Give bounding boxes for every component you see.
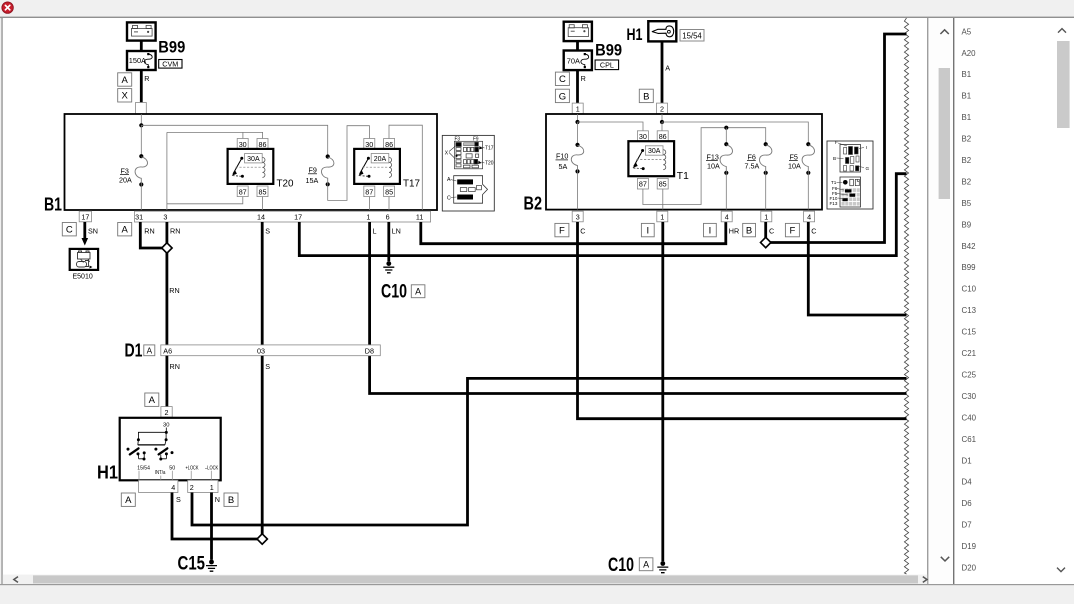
svg-text:S: S [176, 495, 181, 504]
relay T1 [628, 141, 674, 176]
pin box at B1 top [136, 103, 147, 115]
svg-text:C10: C10 [608, 554, 634, 576]
svg-text:F: F [789, 226, 795, 237]
svg-text:B2: B2 [962, 177, 972, 186]
svg-text:C15: C15 [178, 553, 206, 575]
wire S D1 to diamond [261, 356, 264, 534]
svg-text:CPL: CPL [600, 61, 614, 70]
svg-text:B42: B42 [962, 242, 976, 251]
svg-text:R: R [144, 74, 149, 83]
svg-text:2: 2 [190, 483, 194, 492]
wire H1 pin1 to ground C15 [210, 493, 213, 560]
connector box A (H1 top) [145, 393, 159, 406]
svg-text:RN: RN [144, 226, 154, 235]
svg-text:I: I [709, 226, 712, 237]
fuse 70A (B99) [564, 51, 592, 71]
relay T17 [354, 149, 400, 184]
svg-text:I: I [866, 145, 867, 150]
svg-text:A6: A6 [163, 346, 172, 355]
svg-text:D19: D19 [962, 542, 977, 551]
connector boxes F I I B F [555, 223, 569, 236]
svg-text:B: B [746, 226, 752, 237]
svg-text:4: 4 [725, 213, 729, 222]
svg-text:C13: C13 [962, 306, 977, 315]
wire pin31 to diamond [140, 222, 162, 248]
svg-text:A: A [125, 495, 132, 506]
wire B2 pin1b to diamond [764, 222, 767, 238]
svg-text:F9: F9 [309, 166, 317, 175]
B2 pin 3 [572, 211, 583, 222]
svg-text:A5: A5 [962, 27, 972, 36]
wire A (key to B2 pin2) [661, 41, 664, 103]
B2 pin 4 [721, 211, 732, 222]
relay T1 pin 87 [637, 178, 648, 189]
wire T17 87 to pin 1 [368, 197, 370, 210]
svg-text:C21: C21 [962, 349, 976, 358]
relay T1 pin 30 [637, 131, 648, 142]
wire RN diamond to D1 [165, 253, 168, 345]
svg-text:A: A [149, 395, 156, 406]
svg-text:1: 1 [210, 483, 214, 492]
svg-text:D6: D6 [962, 499, 973, 508]
wire pin2 into B2 [661, 114, 663, 122]
svg-text:T20: T20 [485, 161, 494, 167]
svg-text:A20: A20 [962, 49, 977, 58]
svg-text:85: 85 [385, 187, 393, 196]
wire H1 pin2 to sheet edge [192, 378, 907, 525]
svg-text:A: A [415, 287, 421, 297]
connector box A (H1 bottom) [121, 493, 135, 506]
svg-text:1: 1 [660, 213, 664, 222]
wire H1 pin4 S to diamond [172, 493, 258, 540]
window toolbar [0, 0, 1074, 17]
svg-text:G: G [559, 91, 566, 102]
svg-text:5A: 5A [559, 162, 568, 171]
label CPL [595, 60, 619, 70]
B2 pin 4b [804, 211, 815, 222]
svg-text:10A: 10A [707, 162, 720, 171]
vertical scrollbar [940, 30, 948, 34]
svg-text:14: 14 [257, 213, 265, 222]
svg-text:4: 4 [807, 213, 811, 222]
svg-text:F3: F3 [121, 166, 129, 175]
svg-text:B9: B9 [962, 220, 972, 229]
svg-text:2: 2 [660, 104, 664, 113]
svg-text:B2: B2 [524, 193, 543, 214]
fuse F5 10A [806, 142, 810, 146]
battery B99 (left) [127, 22, 156, 40]
wire pin11 to T17 86 [389, 125, 422, 210]
svg-text:B: B [833, 156, 836, 161]
svg-text:SN: SN [88, 226, 98, 235]
svg-text:15/54: 15/54 [682, 32, 702, 41]
svg-text:F3: F3 [455, 136, 461, 142]
connector box B [224, 493, 238, 506]
connector box C [555, 72, 569, 85]
svg-text:A: A [122, 75, 129, 86]
wire pin17 to sheet edge [299, 174, 906, 256]
relay T1 pin 86 [657, 131, 668, 142]
svg-text:N: N [215, 495, 220, 504]
svg-text:7.5A: 7.5A [745, 162, 760, 171]
connector D1 bar [161, 345, 380, 356]
relay T20 pin 87 [237, 186, 248, 197]
fuse 150A (B99) [127, 51, 156, 70]
svg-text:C10: C10 [381, 281, 407, 303]
wire T1 87 to F13/F6 [643, 128, 766, 205]
wire SN with arrow to E5010 [83, 222, 86, 239]
wire F3 to pin 31 [140, 185, 142, 211]
svg-text:B99: B99 [962, 263, 977, 272]
svg-text:30: 30 [239, 140, 247, 149]
connector box G [555, 89, 569, 102]
svg-text:CVM: CVM [162, 59, 178, 68]
connector box A [118, 73, 132, 86]
H1 pin bracket 4 [139, 480, 178, 492]
ground module E5010 [70, 249, 98, 270]
ignition switch H1 [120, 418, 221, 481]
svg-text:H1: H1 [97, 462, 118, 483]
B2 pin 1b [761, 211, 772, 222]
svg-text:150A: 150A [129, 56, 146, 65]
wire node to F10 [577, 122, 579, 145]
svg-text:2: 2 [165, 408, 169, 417]
svg-text:C61: C61 [962, 435, 976, 444]
wire L pin1 through D1 to sheet edge [370, 222, 907, 394]
svg-text:C: C [769, 226, 774, 235]
svg-text:B99: B99 [158, 39, 185, 57]
svg-text:70A: 70A [567, 56, 580, 65]
wire S pin14 to D1 [261, 222, 264, 345]
svg-text:B99: B99 [595, 41, 622, 59]
fuse F10 5A [575, 143, 579, 147]
svg-text:T20: T20 [277, 178, 294, 190]
fuse F3 20A [139, 154, 143, 158]
svg-text:B: B [228, 495, 234, 506]
svg-text:INT/a: INT/a [155, 470, 166, 476]
svg-text:1: 1 [576, 104, 580, 113]
wire B2 pin4b C to sheet edge [808, 222, 906, 315]
svg-text:87: 87 [639, 180, 647, 189]
svg-text:10A: 10A [788, 162, 801, 171]
relay T20 pin 85 [257, 186, 268, 197]
svg-text:F9: F9 [473, 136, 479, 142]
svg-text:I: I [646, 226, 649, 237]
sheet edge zigzag (diagram continuation mark) [904, 18, 908, 574]
svg-text:H1: H1 [627, 26, 643, 44]
svg-text:F: F [559, 226, 565, 237]
svg-text:1: 1 [366, 213, 370, 222]
relay T17 pin 86 [384, 139, 395, 150]
svg-text:C15: C15 [962, 328, 977, 337]
B2 pin 1 (top) [572, 103, 583, 114]
wire inside B1 from pin to node [140, 114, 142, 125]
wire R (B99 to B1) [140, 70, 143, 103]
svg-text:F6: F6 [748, 152, 756, 161]
svg-text:D8: D8 [365, 346, 374, 355]
wire battery to fuse 70A [576, 41, 579, 50]
ECU B1 box [65, 114, 438, 210]
svg-text:X: X [122, 91, 129, 102]
svg-text:–LOCK: –LOCK [205, 465, 218, 471]
svg-text:RN: RN [170, 362, 180, 371]
label CVM [159, 60, 182, 69]
H1 pin bracket 2 1 [188, 480, 218, 492]
svg-text:F13: F13 [707, 152, 719, 161]
svg-text:31: 31 [135, 213, 143, 222]
svg-text:F10: F10 [556, 152, 568, 161]
svg-text:87: 87 [365, 187, 373, 196]
svg-text:R: R [581, 74, 586, 83]
relay T20 pin 86 [257, 139, 268, 150]
wire F9 to T17 pin30 [328, 126, 370, 201]
wire node to F3 [140, 125, 142, 156]
wire node to T1 86 [661, 122, 663, 131]
relay T20 pin 30 [237, 139, 248, 150]
wire labels C HR C C [580, 226, 816, 235]
wire node to T1 pin30 [578, 122, 644, 131]
svg-text:03: 03 [257, 346, 265, 355]
wire RN D1 to H1 pin2 [165, 356, 168, 407]
relay T17 pin 30 [364, 139, 375, 150]
svg-text:S: S [265, 362, 270, 371]
svg-text:A: A [665, 64, 670, 73]
svg-text:1: 1 [764, 213, 768, 222]
node (pin2) [660, 120, 664, 124]
svg-text:86: 86 [659, 132, 667, 141]
close button (red X) [2, 2, 13, 13]
svg-text:C: C [559, 74, 566, 85]
svg-text:C30: C30 [962, 392, 977, 401]
connector/fuse location inset (B1) [442, 135, 494, 211]
fuse F6 7.5A [764, 142, 768, 146]
svg-text:A: A [447, 177, 451, 183]
svg-text:D20: D20 [962, 564, 977, 573]
B2 pin 2 (top) [657, 103, 668, 114]
node (pin1) [575, 120, 579, 124]
connector/fuse location inset (B2) [827, 141, 873, 209]
wire line A (node to F9) [141, 125, 327, 156]
svg-text:50: 50 [169, 465, 175, 471]
wire R (B99 to B2 pin1) [576, 70, 579, 103]
H1 pin 2 (top) [161, 407, 172, 418]
svg-text:C: C [811, 226, 816, 235]
svg-text:85: 85 [659, 180, 667, 189]
svg-text:30A: 30A [648, 148, 661, 155]
B1 pin row strip [135, 211, 431, 222]
svg-text:D4: D4 [962, 478, 973, 487]
svg-text:3: 3 [163, 213, 167, 222]
svg-text:3: 3 [576, 213, 580, 222]
wire pin1 into B2 [577, 114, 579, 122]
svg-text:17: 17 [81, 213, 89, 222]
svg-text:B: B [643, 91, 649, 102]
ground C10 (upper) [386, 261, 391, 266]
wire pin3 vertical [166, 132, 168, 210]
svg-text:30: 30 [365, 140, 373, 149]
svg-text:+LOCK: +LOCK [186, 465, 199, 471]
connector box B [639, 89, 653, 102]
wire pin3 down [165, 222, 168, 244]
wire battery to fuse [140, 41, 143, 51]
wire B2 pin1 to ground C10 [661, 222, 664, 561]
svg-text:RN: RN [170, 226, 180, 235]
svg-text:85: 85 [259, 187, 267, 196]
junction diamond [162, 243, 172, 253]
svg-text:F: F [835, 140, 838, 145]
svg-text:RN: RN [169, 286, 179, 295]
svg-text:LN: LN [392, 226, 401, 235]
svg-text:F5: F5 [790, 152, 798, 161]
svg-text:20A: 20A [374, 156, 387, 163]
svg-text:30: 30 [639, 132, 647, 141]
svg-text:T17: T17 [485, 146, 494, 152]
svg-text:20A: 20A [119, 175, 132, 184]
svg-text:C25: C25 [962, 371, 977, 380]
wire pin11 to B2 pin4 HR [421, 222, 726, 244]
svg-text:C: C [447, 196, 451, 202]
svg-text:87: 87 [239, 187, 247, 196]
connector box X [118, 89, 132, 102]
wire node to F13 [725, 128, 727, 145]
node (F13 feed) [724, 126, 728, 130]
svg-text:30A: 30A [247, 156, 260, 163]
horizontal scrollbar [3, 575, 927, 584]
svg-text:B1: B1 [962, 92, 972, 101]
svg-text:D1: D1 [962, 456, 972, 465]
wire LN pin6 to ground [387, 222, 390, 261]
svg-text:T17: T17 [403, 178, 420, 190]
svg-text:S: S [265, 226, 270, 235]
B2 pin 1 [657, 211, 668, 222]
relay T20 [228, 149, 274, 184]
svg-text:F13: F13 [830, 201, 838, 206]
svg-text:C10: C10 [962, 285, 977, 294]
relay T17 pin 85 [384, 186, 395, 197]
svg-text:HR: HR [729, 226, 739, 235]
svg-text:C: C [580, 226, 585, 235]
svg-text:B1: B1 [44, 194, 62, 215]
junction diamond (HR) [761, 237, 771, 247]
ground C15 [209, 560, 214, 565]
svg-text:15/54: 15/54 [137, 465, 150, 471]
battery B99 (right) [564, 22, 592, 41]
svg-text:T1: T1 [831, 180, 837, 185]
svg-text:15A: 15A [306, 176, 319, 185]
component list panel [962, 27, 977, 572]
svg-text:17: 17 [294, 213, 302, 222]
svg-text:11: 11 [416, 213, 423, 222]
relay T17 pin 87 [364, 186, 375, 197]
svg-text:T1: T1 [677, 170, 689, 182]
connector box A [118, 223, 132, 236]
node junction [139, 123, 143, 127]
svg-text:B1: B1 [962, 113, 972, 122]
svg-text:86: 86 [259, 140, 267, 149]
ECU B2 box [546, 114, 822, 210]
svg-text:86: 86 [385, 140, 393, 149]
junction diamond (S wire) [257, 534, 267, 544]
connector box C [62, 223, 76, 236]
svg-text:6: 6 [386, 213, 390, 222]
list scrollbar [1058, 29, 1066, 33]
wire labels RN RN S L LN [144, 226, 401, 235]
relay T1 pin 85 [657, 178, 668, 189]
svg-text:D1: D1 [125, 340, 143, 361]
wire T17 85 to pin 6 [388, 197, 390, 210]
label 15/54 [680, 30, 704, 42]
ground C10 (lower) [660, 561, 665, 566]
svg-text:B2: B2 [962, 135, 972, 144]
wire F10 to pin3 [577, 171, 579, 209]
svg-text:B5: B5 [962, 199, 972, 208]
svg-text:G: G [866, 166, 870, 171]
svg-text:B1: B1 [962, 70, 972, 79]
wire T20 87 to pin3 [167, 196, 243, 204]
svg-text:E5010: E5010 [73, 274, 93, 281]
fuse F9 15A [326, 154, 330, 158]
wire T20 85 to pin 14 [261, 197, 263, 210]
wire node to F5 [662, 122, 808, 144]
svg-text:A: A [147, 347, 153, 356]
B1 pin 17 (left, connector C) [79, 211, 91, 222]
wire line B (feeds T20 30/86) [167, 132, 263, 138]
svg-text:D7: D7 [962, 521, 972, 530]
svg-text:B2: B2 [962, 156, 972, 165]
svg-text:C40: C40 [962, 413, 977, 422]
wire B2 pin3 C to sheet edge [578, 222, 907, 419]
svg-text:4: 4 [171, 483, 175, 492]
wire diamond to sheet edge (top right) [770, 34, 907, 243]
fuse F13 10A [724, 142, 728, 146]
wire T1 85 to pin1 [662, 189, 664, 210]
svg-text:A: A [643, 560, 649, 570]
svg-text:A: A [122, 225, 129, 236]
svg-text:L: L [373, 226, 377, 235]
svg-text:C: C [66, 225, 73, 236]
